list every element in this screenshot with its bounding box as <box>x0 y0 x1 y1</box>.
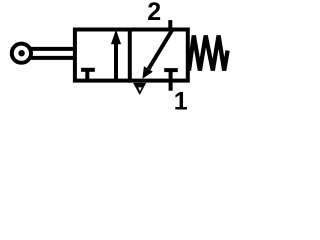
svg-text:1: 1 <box>174 88 188 116</box>
right position: diagonal flow line 2 to 3 <box>149 30 173 70</box>
left position: blocked port T stem <box>85 70 89 81</box>
exhaust triangle inner notch <box>138 87 142 91</box>
exhaust triangle port 3 <box>133 83 146 95</box>
right position: blocked port T bar <box>164 68 178 72</box>
valve body outline <box>75 30 188 81</box>
roller actuator circle <box>12 44 31 63</box>
return spring <box>189 36 228 71</box>
roller lever bottom line <box>29 56 76 60</box>
left position: flow arrow head <box>111 30 121 45</box>
right position: diagonal arrow head <box>142 66 152 79</box>
right position: blocked port T stem / port 1 stub <box>169 70 173 91</box>
roller center pin <box>18 50 24 56</box>
left position: blocked port T bar <box>81 68 95 72</box>
position divider line <box>128 28 132 83</box>
roller lever top line <box>29 47 76 51</box>
left position: flow arrow shaft <box>114 42 118 81</box>
port 2 stub <box>168 20 172 31</box>
svg-text:2: 2 <box>147 0 161 26</box>
